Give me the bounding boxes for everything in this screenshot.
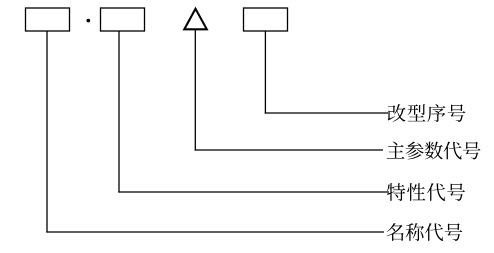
label text: 特性代号 (characteristic code)	[387, 183, 465, 201]
wire: triangle leader vertical	[194, 30, 196, 151]
wire: box1 leader horizontal to 名称代号	[46, 231, 384, 233]
wire: box3 leader horizontal to 改型序号	[265, 112, 388, 114]
triangle symbol (main parameter field)	[184, 9, 207, 30]
separator dot	[87, 19, 91, 23]
wire: box2 leader vertical	[118, 31, 120, 193]
box 3 (modification serial field)	[244, 8, 288, 31]
box 2 (characteristic code field)	[101, 8, 145, 31]
wire: box2 leader horizontal to 特性代号	[118, 191, 389, 193]
wire: triangle leader horizontal to 主参数代号	[195, 149, 383, 151]
box 1 (name code field)	[26, 8, 70, 31]
label text: 主参数代号 (main parameter code)	[387, 142, 481, 160]
label text: 名称代号 (name code)	[387, 223, 463, 241]
wire: box3 leader vertical	[264, 31, 266, 114]
wire: box1 leader vertical	[46, 31, 48, 233]
label text: 改型序号 (modification serial number)	[388, 104, 466, 122]
